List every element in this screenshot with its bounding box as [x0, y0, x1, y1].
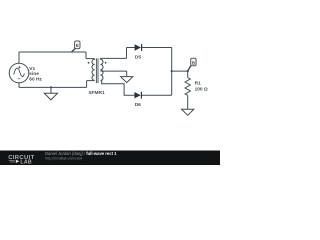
voltage source V1 sine symbol — [14, 68, 24, 77]
CircuitLab logo — [8, 155, 34, 166]
wire bottom from V1 to transformer primary — [19, 86, 87, 88]
ground under R1 — [182, 109, 194, 115]
resistor R1 zigzag — [185, 78, 190, 96]
wire primary top descent — [85, 52, 87, 59]
junction dot at R1 top node — [187, 70, 189, 72]
voltage source V1 circle — [9, 63, 29, 83]
svg-text:E: E — [76, 43, 79, 48]
wire D5 cathode to right vertical — [142, 47, 172, 49]
junction dot at right vertical and mid wire — [171, 70, 173, 72]
junction dot on bottom wire at ground tap — [50, 86, 52, 88]
wire right vertical joining D5 and D6 — [171, 48, 173, 96]
svg-text:100 Ω: 100 Ω — [195, 86, 208, 92]
wire top from V1 to transformer — [19, 51, 86, 53]
transformer XFMR1 secondary phase dot — [105, 62, 107, 64]
svg-text:D6: D6 — [135, 102, 141, 108]
svg-text:B: B — [192, 60, 195, 65]
wire into D5 anode — [127, 47, 135, 49]
transformer XFMR1 primary bottom connector — [87, 80, 95, 82]
transformer XFMR1 primary winding — [92, 59, 95, 81]
ground at transformer center tap — [121, 71, 133, 83]
wire secondary top lead to riser — [100, 57, 126, 59]
svg-text:http://circuitlab.com/cvq4: http://circuitlab.com/cvq4 — [45, 157, 82, 161]
wire mid horizontal to R1 — [172, 70, 188, 72]
svg-text:R1: R1 — [195, 81, 201, 87]
voltage source V1 plus sign — [18, 66, 20, 68]
wire primary bottom riser — [86, 81, 88, 88]
diode D5 — [135, 44, 142, 60]
wire riser up to D5 level — [126, 48, 128, 59]
transformer XFMR1 core — [96, 58, 98, 83]
node flag E — [71, 41, 80, 52]
wire secondary center tap — [100, 70, 126, 72]
wire V1 bottom lead — [18, 83, 20, 88]
ground under bottom wire — [44, 87, 57, 100]
svg-text:LAB: LAB — [20, 159, 32, 165]
svg-text:XFMR1: XFMR1 — [88, 90, 105, 96]
diode D6 — [134, 92, 141, 108]
svg-text:sine: sine — [29, 71, 39, 77]
wire D6 cathode to right vertical — [142, 94, 172, 96]
svg-text:Daniel Jordan (danj) / full-wa: Daniel Jordan (danj) / full-wave rect 1 — [45, 151, 117, 156]
wire V1 top lead — [18, 52, 20, 63]
voltage source V1 minus sign — [18, 78, 21, 80]
wire R1 top lead — [187, 71, 189, 77]
svg-text:D5: D5 — [135, 54, 141, 60]
footer bar — [0, 151, 220, 166]
node flag B — [188, 58, 196, 71]
svg-text:60 Hz: 60 Hz — [29, 77, 42, 83]
wire secondary bottom lead — [102, 80, 135, 95]
transformer XFMR1 primary top lead — [86, 58, 95, 60]
transformer XFMR1 primary phase dot — [88, 62, 90, 64]
svg-text:V1: V1 — [29, 66, 35, 72]
wire R1 bottom lead — [187, 95, 189, 109]
transformer XFMR1 secondary winding — [100, 58, 103, 80]
